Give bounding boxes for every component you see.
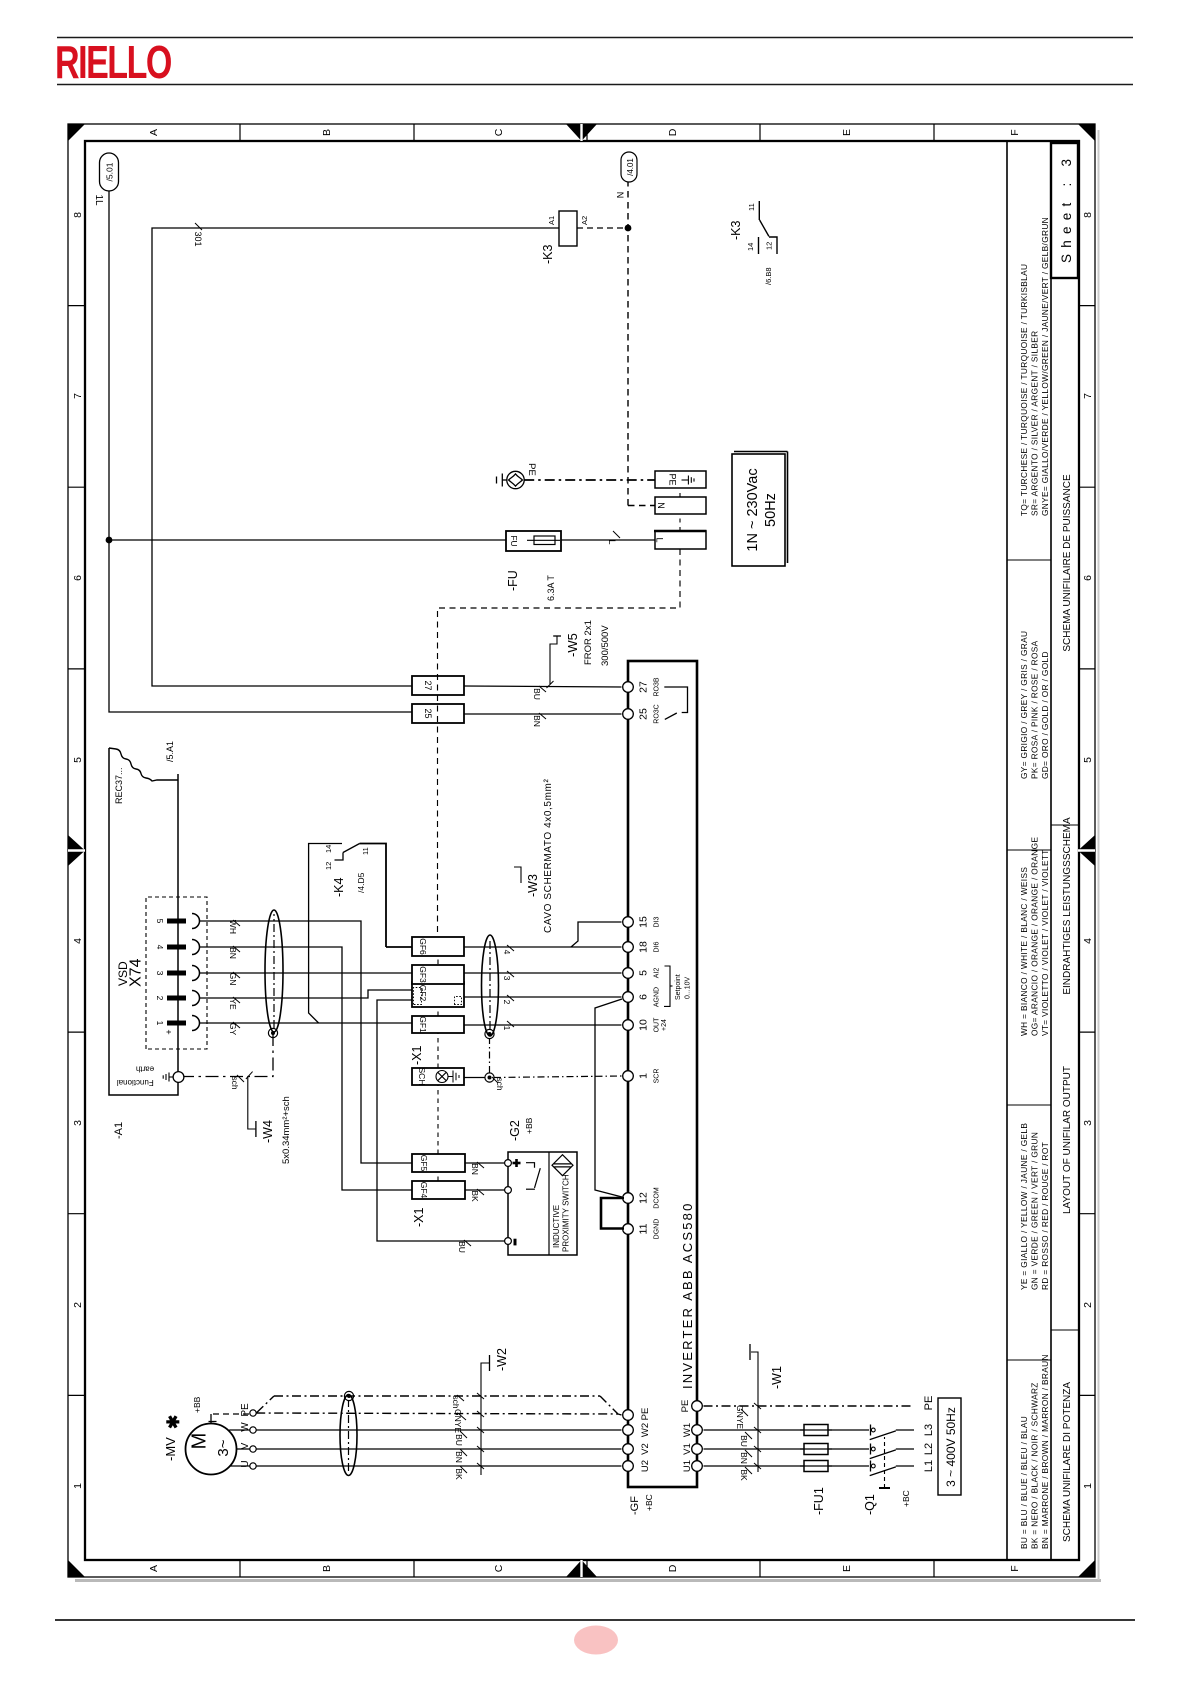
svg-text:GNYE= GIALLO/VERDE / YELLOW/GR: GNYE= GIALLO/VERDE / YELLOW/GREEN / JAUN… [1040, 217, 1050, 516]
svg-text:PE: PE [923, 1396, 935, 1411]
svg-text:EINDRAHTIGES LEISTUNGSSCHEMA: EINDRAHTIGES LEISTUNGSSCHEMA [1062, 817, 1073, 995]
svg-text:GD= ORO / GOLD / OR / GOLD: GD= ORO / GOLD / OR / GOLD [1040, 651, 1050, 779]
inverter top pin circles [623, 682, 634, 1472]
pink ellipse stamp [574, 1626, 618, 1655]
switch Q1 pole W [870, 1425, 872, 1436]
wire motor U to U2 [256, 1465, 621, 1467]
svg-text:1: 1 [155, 1021, 165, 1026]
svg-text:Setpoint: Setpoint [675, 974, 682, 1000]
svg-text:D: D [667, 128, 679, 136]
centre marker bottom edge [1078, 835, 1095, 866]
wire sch merge to GNYE [600, 1396, 618, 1414]
svg-text:FROR 2x1: FROR 2x1 [583, 620, 594, 665]
wire W5 screen dotted [438, 549, 681, 937]
svg-text:FU: FU [509, 535, 519, 546]
svg-text:LAYOUT OF UNIFILAR OUTPUT: LAYOUT OF UNIFILAR OUTPUT [1062, 1066, 1073, 1214]
frame column numbers top [72, 212, 84, 1489]
svg-text:AGND: AGND [654, 987, 661, 1007]
svg-text:PK= ROSA / PINK / ROSE / ROSA: PK= ROSA / PINK / ROSE / ROSA [1030, 640, 1040, 779]
wire sch shield line W2 [257, 1396, 274, 1413]
svg-text:1N ~ 230Vac: 1N ~ 230Vac [745, 468, 761, 551]
wire motor W to W2 [256, 1429, 621, 1431]
svg-text:Functional: Functional [117, 1078, 154, 1087]
svg-text:INVERTER ABB ACS580: INVERTER ABB ACS580 [680, 1201, 695, 1389]
fuse FU box [506, 531, 561, 551]
ferrite GF6 [412, 937, 464, 956]
svg-text:U1: U1 [682, 1460, 693, 1472]
svg-text:25: 25 [638, 708, 650, 720]
svg-text:6: 6 [638, 994, 650, 1000]
svg-text:15: 15 [638, 916, 650, 928]
svg-text:RD = ROSSO / RED / ROUGE / ROT: RD = ROSSO / RED / ROUGE / ROT [1040, 1142, 1050, 1290]
svg-text:4: 4 [502, 950, 512, 955]
svg-text:SR= ARGENTO / SILVER / ARGENT: SR= ARGENTO / SILVER / ARGENT / SILBER [1030, 330, 1040, 516]
svg-text:BN: BN [532, 715, 542, 727]
svg-text:E: E [841, 1565, 853, 1572]
svg-text:+BC: +BC [901, 1490, 911, 1507]
svg-text:DI6: DI6 [654, 941, 661, 952]
functional earth circle [173, 1072, 184, 1083]
proximity switch G2 box [508, 1152, 577, 1255]
relay contact glyph inside inverter [664, 687, 687, 719]
link DCOM-DGND thick [601, 1198, 624, 1229]
motor terminal PE [250, 1410, 256, 1416]
svg-text:N: N [615, 192, 625, 199]
switch Q1 linkage dashed [884, 1437, 886, 1488]
svg-text:B: B [321, 1565, 333, 1572]
svg-text:DI3: DI3 [654, 916, 661, 927]
svg-text:+: + [164, 1029, 174, 1034]
X74 pin 1 [167, 1021, 186, 1026]
wire 1L drop to fuse and L terminal [109, 539, 655, 541]
ferrite GF2 [412, 982, 464, 1007]
svg-text:/5.A1: /5.A1 [165, 741, 175, 762]
svg-text:-K3: -K3 [541, 245, 555, 265]
wire BN X74-4 to GF4 [200, 947, 413, 1190]
inverter bottom pin circles [692, 1401, 703, 1472]
connector X74 dashed outline [146, 897, 207, 1049]
svg-text:-MV: -MV [163, 1437, 178, 1461]
svg-text:INDUCTIVE: INDUCTIVE [552, 1205, 561, 1248]
svg-text:AI2: AI2 [654, 968, 661, 979]
svg-text:/4.D5: /4.D5 [356, 872, 366, 893]
svg-text:3 ~ 400V 50Hz: 3 ~ 400V 50Hz [944, 1407, 958, 1487]
svg-text:1: 1 [72, 1483, 84, 1489]
wire GF4 to G2 mid [465, 1189, 504, 1191]
svg-text:+BB: +BB [524, 1117, 534, 1134]
wire GN X74-3 to GF3 [200, 972, 413, 974]
screen terminal dot W4 [268, 1028, 277, 1037]
switch Q1 pole V [870, 1444, 872, 1455]
terminal box L [655, 531, 706, 549]
motor terminal W [250, 1427, 256, 1433]
svg-text:18: 18 [638, 941, 650, 953]
switch Q1 handle [879, 1487, 890, 1489]
ferrite GF3 [412, 965, 464, 984]
wire K3 A2 dashed to N node [577, 227, 628, 229]
svg-text:sch: sch [230, 1076, 240, 1090]
terminal box PE [655, 471, 706, 488]
svg-text:D: D [667, 1564, 679, 1572]
fuse FU1 pole U [804, 1461, 828, 1472]
svg-text:3: 3 [502, 976, 512, 981]
ferrite GF1 [412, 1016, 464, 1033]
centre marker left edge [566, 1560, 597, 1577]
svg-text:8: 8 [1082, 212, 1094, 218]
svg-text:BU: BU [739, 1435, 749, 1447]
svg-text:WH = BIANCO / WHITE / BLANC /: WH = BIANCO / WHITE / BLANC / WEISS [1019, 867, 1029, 1036]
wire dotted link L-N-PE [679, 514, 681, 531]
svg-text:OUT: OUT [654, 1017, 661, 1033]
svg-text:-GF: -GF [629, 1496, 641, 1515]
sch node dot W3 [485, 1073, 494, 1082]
X74 pin 3 [167, 971, 186, 976]
wire YE X74-2 to GF2 [200, 990, 413, 998]
svg-text:-W3: -W3 [526, 874, 540, 897]
svg-text:8: 8 [72, 212, 84, 218]
node N oval /4.01 [621, 152, 637, 182]
wire GF1 to pin10 [464, 1024, 622, 1026]
motor terminal U [250, 1463, 256, 1469]
svg-text:V2: V2 [640, 1443, 651, 1455]
svg-text:2: 2 [155, 996, 165, 1001]
wire PE dash-dot to PE terminal [524, 479, 655, 481]
svg-text:SCH: SCH [417, 1068, 427, 1086]
svg-text:+BC: +BC [644, 1494, 654, 1511]
svg-text:E: E [841, 129, 853, 136]
svg-text:300/500V: 300/500V [600, 625, 611, 666]
svg-text:-FU1: -FU1 [812, 1487, 826, 1515]
svg-text:-W2: -W2 [495, 1348, 509, 1371]
wire SCH box to sch dot [464, 1077, 485, 1079]
G2 terminal + [505, 1160, 512, 1167]
legend texts column 4 [1019, 631, 1050, 779]
svg-text:W2: W2 [640, 1423, 651, 1437]
screen clamp SCH box [412, 1068, 464, 1085]
svg-text:3: 3 [1082, 1120, 1094, 1126]
svg-text:301: 301 [193, 231, 203, 246]
svg-text:sch: sch [495, 1077, 505, 1091]
title cell dividers [1051, 825, 1078, 1330]
svg-text:B: B [321, 129, 333, 136]
svg-text:M: M [189, 1433, 211, 1450]
svg-text:V1: V1 [682, 1443, 693, 1455]
svg-text:+BB: +BB [192, 1396, 202, 1413]
svg-text:5: 5 [155, 919, 165, 924]
earth assembly PE top [497, 471, 525, 488]
screen terminal dot W3 [485, 1029, 494, 1038]
frame row letters left [148, 1564, 1021, 1572]
supply box 1N 230Vac 50Hz [732, 454, 785, 566]
svg-text:L: L [607, 539, 617, 544]
dashed screen links between ferrites [437, 956, 439, 1181]
wire GF3 to pin5 [464, 972, 622, 974]
top rule line [57, 37, 1133, 39]
svg-text:5x0.34mm²+sch: 5x0.34mm²+sch [281, 1096, 292, 1164]
svg-text:W1: W1 [682, 1423, 693, 1437]
svg-text:-K3: -K3 [729, 221, 743, 241]
svg-text:5: 5 [72, 757, 84, 763]
cable W1 marker [751, 1352, 758, 1472]
svg-text:6: 6 [72, 575, 84, 581]
functional earth symbol [163, 1073, 173, 1082]
earth glyph inside PE box [682, 476, 695, 485]
svg-text:GNYE: GNYE [735, 1405, 745, 1429]
svg-text:DGND: DGND [654, 1219, 661, 1240]
legend texts column 1 [1019, 1354, 1050, 1549]
svg-text:BK = NERO / BLACK / NOIR / SCH: BK = NERO / BLACK / NOIR / SCHWARZ [1030, 1382, 1040, 1549]
wire sch dot to pin1 dash-dot [494, 1076, 622, 1078]
switch Q1 pole U [870, 1461, 872, 1472]
svg-text:L1: L1 [923, 1460, 935, 1472]
svg-text:GF3: GF3 [418, 966, 428, 983]
legend band line [1006, 141, 1008, 1560]
wire 1L rail [109, 191, 412, 712]
X74 pin 4 [167, 945, 186, 950]
svg-text:-A1: -A1 [113, 1122, 125, 1139]
ferrite GF4 [412, 1181, 465, 1199]
svg-text:F: F [1009, 1565, 1021, 1571]
node junction dot on 1L rail [106, 537, 113, 544]
G2 terminal minus [505, 1238, 512, 1245]
svg-text:DCOM: DCOM [654, 1187, 661, 1209]
svg-text:+24: +24 [661, 1019, 668, 1031]
svg-text:BN: BN [739, 1452, 749, 1464]
svg-text:-X1: -X1 [410, 1046, 424, 1066]
wire G2 minus BU to GF2 [377, 1000, 504, 1241]
svg-text:BU: BU [457, 1241, 467, 1253]
ferrite GF5 [412, 1154, 465, 1172]
svg-text:L2: L2 [923, 1443, 935, 1455]
svg-text:F: F [1009, 129, 1021, 135]
wire 25 to inverter [464, 713, 622, 715]
terminal box 27 [412, 676, 464, 695]
svg-text:5: 5 [638, 970, 650, 976]
svg-text:GF1: GF1 [418, 1016, 428, 1033]
drawing frame inner [85, 141, 1079, 1560]
svg-text:7: 7 [1082, 393, 1094, 399]
motor MV [186, 1424, 237, 1475]
svg-text:4: 4 [72, 938, 84, 944]
svg-text:C: C [493, 1564, 505, 1572]
wire N dashed rail [627, 182, 629, 506]
centre marker top edge [68, 835, 85, 866]
svg-text:/6.B8: /6.B8 [764, 267, 773, 285]
svg-text:27: 27 [423, 680, 433, 690]
relay coil K3 [559, 211, 577, 246]
svg-text:PE: PE [680, 1400, 691, 1413]
torn edge of A1 [109, 748, 178, 781]
svg-text:1L: 1L [93, 194, 104, 206]
svg-text:-X1: -X1 [412, 1208, 426, 1228]
G2 terminal mid [505, 1187, 512, 1194]
motor leads [229, 1430, 250, 1466]
terminal box N [655, 497, 706, 514]
wire screen drain to functional earth [184, 1033, 273, 1077]
cable W2 marker [481, 1363, 489, 1475]
svg-text:GF5: GF5 [419, 1155, 429, 1172]
svg-text:1: 1 [638, 1073, 650, 1079]
svg-text:BU = BLU / BLUE / BLEU / BLAU: BU = BLU / BLUE / BLEU / BLAU [1019, 1416, 1029, 1549]
svg-text:11: 11 [747, 203, 756, 211]
frame column numbers bottom [1082, 212, 1094, 1489]
wire GNYE dash-dot motor PE to inverter PE [256, 1413, 618, 1414]
svg-text:50Hz: 50Hz [763, 493, 779, 527]
wire W1 down [704, 1429, 870, 1431]
wire 27 to inverter [464, 686, 622, 687]
frame row letters right [148, 128, 1021, 136]
svg-text:VT= VIOLETTO / VIOLET / VIOLET: VT= VIOLETTO / VIOLET / VIOLET / VIOLETT [1040, 849, 1050, 1036]
svg-text:WH: WH [228, 920, 238, 934]
svg-text:GF6: GF6 [418, 938, 428, 955]
drawing frame outer [68, 124, 1095, 1577]
svg-text:BN: BN [454, 1451, 464, 1463]
corner triangle top-right [68, 124, 85, 141]
svg-text:PE: PE [640, 1408, 651, 1421]
contact K4 changeover [309, 844, 360, 1024]
G2 contact glyph [526, 1163, 540, 1190]
svg-text:/4.01: /4.01 [626, 158, 635, 176]
wire WH X74-5 to GF5 [200, 921, 413, 1163]
svg-text:PE: PE [668, 473, 678, 485]
svg-text:YE = GIALLO / YELLOW / JAUNE /: YE = GIALLO / YELLOW / JAUNE / GELB [1019, 1123, 1029, 1290]
svg-text:-K4: -K4 [332, 878, 346, 898]
X74 pin 5 [167, 919, 186, 924]
svg-text:SCR: SCR [654, 1069, 661, 1084]
wire GF6 to pin18 with jog to pin15 [464, 946, 622, 948]
fuse FU1 pole W [804, 1425, 828, 1436]
cable W5 marker [550, 637, 557, 685]
screen terminal dot W2 [344, 1391, 353, 1400]
svg-text:-W5: -W5 [565, 633, 580, 657]
svg-text:14: 14 [746, 243, 755, 251]
wire 301 net [152, 228, 559, 686]
wire GY X74-1 to GF1 [200, 1022, 413, 1024]
svg-text:L3: L3 [923, 1424, 935, 1436]
svg-text:V: V [240, 1442, 251, 1449]
svg-text:PROXIMITY SWITCH: PROXIMITY SWITCH [562, 1174, 571, 1252]
svg-text:BN: BN [470, 1163, 480, 1175]
legend cell dividers [1007, 560, 1051, 1360]
svg-text:5: 5 [1082, 757, 1094, 763]
svg-text:X74: X74 [128, 958, 145, 987]
cable screen oval W2 [340, 1395, 357, 1476]
svg-text:-W4: -W4 [261, 1120, 275, 1143]
svg-text:/5.01: /5.01 [105, 162, 115, 181]
svg-text:10: 10 [638, 1019, 650, 1031]
svg-text:-G2: -G2 [508, 1120, 522, 1141]
svg-text:A: A [148, 1565, 160, 1572]
cable W4 marker [248, 1076, 256, 1129]
svg-text:BK: BK [470, 1190, 480, 1202]
G2 sensor diamond [552, 1155, 573, 1176]
svg-text:REC37...: REC37... [114, 767, 124, 804]
terminal box 25 [412, 704, 464, 723]
board A1 REC37 [109, 748, 178, 1095]
frame drop shadow [75, 1579, 1101, 1582]
svg-text:25: 25 [423, 708, 433, 718]
svg-text:PE: PE [240, 1403, 251, 1417]
svg-text:27: 27 [638, 681, 650, 693]
RIELLO logo [55, 36, 171, 88]
svg-text:BU: BU [532, 688, 542, 700]
svg-text:BU: BU [454, 1434, 464, 1446]
svg-text:1: 1 [1082, 1483, 1094, 1489]
svg-text:SCHEMA UNIFILAIRE DE PUISSANCE: SCHEMA UNIFILAIRE DE PUISSANCE [1062, 474, 1073, 652]
svg-text:earth: earth [136, 1064, 154, 1073]
svg-text:12: 12 [765, 242, 774, 250]
wire U1 down [704, 1465, 870, 1467]
svg-text:RO3B: RO3B [654, 677, 661, 696]
svg-text:2: 2 [72, 1302, 84, 1308]
svg-text:2: 2 [1082, 1302, 1094, 1308]
svg-text:GF4: GF4 [419, 1182, 429, 1199]
svg-text:RIELLO: RIELLO [55, 36, 171, 88]
svg-text:11: 11 [361, 847, 370, 855]
wire V1 down [704, 1448, 870, 1450]
svg-text:TQ= TURCHESE / TURQUOISE / TUR: TQ= TURCHESE / TURQUOISE / TURQUOISE / T… [1019, 264, 1029, 516]
svg-text:A1: A1 [547, 216, 556, 225]
centre marker right edge [566, 124, 597, 141]
corner triangle bottom-left [1078, 1560, 1095, 1577]
svg-text:A2: A2 [580, 216, 589, 225]
svg-text:7: 7 [72, 393, 84, 399]
wire motor V to V2 [256, 1448, 621, 1450]
svg-text:6.3A T: 6.3A T [546, 575, 556, 601]
supply box 400V 50Hz [938, 1398, 961, 1495]
cable W3 marker [514, 867, 521, 883]
earth glyph in SCH [448, 1071, 459, 1083]
fuse FU1 pole V [804, 1444, 828, 1455]
inverter U1 box ABB ACS580 [628, 661, 697, 1487]
svg-text:4: 4 [155, 945, 165, 950]
svg-text:11: 11 [638, 1223, 650, 1234]
svg-text:GN = VERDE / GREEN / VERT / GR: GN = VERDE / GREEN / VERT / GRUN [1030, 1132, 1040, 1290]
wire sch dot to W3 dot dash-dot [489, 1039, 491, 1074]
svg-text:BK: BK [739, 1469, 749, 1481]
title band line [1050, 141, 1052, 1560]
cable screen oval W4 [265, 910, 283, 1032]
svg-text:6: 6 [1082, 575, 1094, 581]
wire PE1 dash-dot down [704, 1405, 915, 1407]
frame band dividers: columns (numbers 1-8) [68, 306, 1095, 1396]
svg-text:GY= GRIGIO / GREY / GRIS / GRA: GY= GRIGIO / GREY / GRIS / GRAU [1019, 631, 1029, 779]
svg-text:12: 12 [324, 862, 333, 870]
svg-text:A: A [148, 129, 160, 136]
svg-text:-Q1: -Q1 [863, 1494, 877, 1515]
motor terminal V [250, 1446, 256, 1452]
svg-text:0...10V: 0...10V [685, 976, 692, 999]
svg-text:SCHEMA UNIFILARE DI POTENZA: SCHEMA UNIFILARE DI POTENZA [1062, 1382, 1073, 1542]
svg-text:OG= ARANCIO / ORANGE / ORANGE: OG= ARANCIO / ORANGE / ORANGE / ORANGE [1030, 837, 1040, 1036]
svg-text:CAVO SCHERMATO 4x0,5mm²: CAVO SCHERMATO 4x0,5mm² [543, 779, 554, 933]
wire GF5 to G2 plus [465, 1162, 504, 1164]
svg-text:14: 14 [324, 845, 333, 853]
svg-text:3: 3 [155, 971, 165, 976]
svg-text:BN = MARRONE / BROWN / MARRON: BN = MARRONE / BROWN / MARRON / BRAUN [1040, 1354, 1050, 1549]
svg-text:PE: PE [526, 463, 537, 476]
wire K4 to GF6 [386, 946, 412, 948]
wire AGND pin6 to DCOM pin12 [595, 999, 622, 1197]
svg-text:U2: U2 [640, 1460, 651, 1472]
svg-text:-FU: -FU [506, 570, 520, 591]
svg-text:GNYE: GNYE [453, 1409, 463, 1433]
wire GF2 to pin6 [464, 996, 622, 998]
node 1L source oval /5.01 [100, 153, 119, 191]
rule under logo [57, 84, 1133, 86]
svg-text:✱: ✱ [164, 1415, 183, 1429]
frame band dividers: rows (letters A-F) [240, 124, 934, 1577]
